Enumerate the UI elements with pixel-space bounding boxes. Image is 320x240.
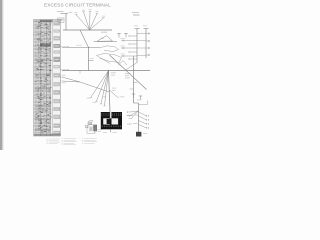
VC tick b xyxy=(130,88,134,90)
circuit schedule table frame xyxy=(34,20,61,137)
table bottom dark row xyxy=(34,134,61,136)
riser VL2 xyxy=(145,29,147,59)
riser top labels xyxy=(134,25,138,28)
node F1 fanout xyxy=(76,15,90,31)
ladder bottom diagonal xyxy=(125,63,137,71)
ladder right stubs xyxy=(146,33,149,35)
tee symbols mid xyxy=(133,94,135,98)
table column rules xyxy=(34,20,36,137)
ladder rungs long xyxy=(122,40,137,42)
table dark band mid xyxy=(40,43,51,46)
flag on diagonal xyxy=(118,61,127,66)
wire V2 vertical xyxy=(88,48,90,71)
table text specks xyxy=(36,93,39,96)
wire H3 main horizontal xyxy=(62,70,150,72)
H3 source dashes xyxy=(60,68,62,71)
ladder cross ties xyxy=(137,33,146,35)
riser tap tick xyxy=(61,13,69,15)
block bottom stub xyxy=(110,129,112,132)
left scan edge bar xyxy=(0,0,2,150)
node J2 junction xyxy=(88,47,89,48)
schedule right column blocks xyxy=(53,20,60,25)
table dark bands xyxy=(35,59,51,61)
wire diagonal to trunk xyxy=(80,82,109,92)
hub label xyxy=(111,72,116,75)
panel detail photo block xyxy=(101,112,122,129)
feeder label box xyxy=(58,18,64,22)
isometric cabinet sketch xyxy=(85,121,96,134)
node F2 hub xyxy=(108,70,109,71)
hub fan down-left xyxy=(91,71,109,98)
VD hub left fan xyxy=(129,111,139,117)
loop detail B1 lower curl xyxy=(97,54,122,63)
VC tick a xyxy=(134,82,138,84)
wire D1 drop xyxy=(80,30,89,48)
table header band xyxy=(40,20,53,22)
wire trunk vertical xyxy=(109,71,111,113)
VD top branch xyxy=(139,104,148,106)
long diagonal feeder xyxy=(110,55,147,90)
photo top texture xyxy=(101,113,102,116)
notes block B xyxy=(62,138,63,141)
photo center slot xyxy=(110,112,112,118)
riser VC xyxy=(133,56,135,103)
pennant flag P1 xyxy=(97,36,113,42)
pole tees xyxy=(118,33,120,38)
riser VD xyxy=(138,103,140,136)
VD right branches xyxy=(139,112,147,116)
scan background xyxy=(0,0,150,150)
wire H2 horizontal xyxy=(62,47,100,49)
H3 stub xyxy=(79,71,81,74)
cabinet shading xyxy=(93,125,97,131)
photo white window left xyxy=(103,118,110,124)
block leader labels xyxy=(127,115,133,117)
photo bottom speck row xyxy=(102,126,103,128)
table row texture xyxy=(34,21,51,23)
riser VL1 xyxy=(136,29,138,63)
photo white window right xyxy=(112,118,119,124)
wire W1 vertical xyxy=(65,14,67,31)
VC label xyxy=(125,72,131,75)
loop detail B1 upper curl xyxy=(100,46,119,52)
isolated dash xyxy=(133,14,140,16)
H2 source dashes xyxy=(60,45,62,48)
branch pair left xyxy=(62,77,80,82)
ladder rungs short xyxy=(129,35,137,37)
VC jog xyxy=(134,102,139,104)
VD terminal block xyxy=(136,132,141,137)
svg-text:EXCESS CIRCUIT TERMINAL: EXCESS CIRCUIT TERMINAL xyxy=(44,2,111,7)
wire W2 horizontal bus xyxy=(63,29,112,31)
V2 branch tick xyxy=(89,60,94,62)
trunk right branch xyxy=(109,90,118,98)
photo inner dark square xyxy=(107,119,112,124)
notes block C xyxy=(82,138,83,141)
notes block A xyxy=(47,138,48,141)
